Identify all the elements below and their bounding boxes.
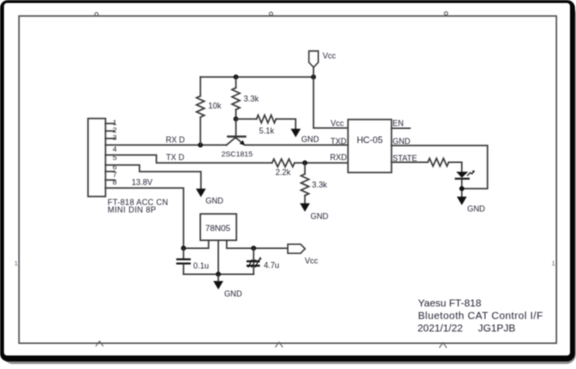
border mark bottom C — [440, 343, 447, 348]
label GND (pin 6) — [206, 197, 224, 206]
pin 1 stub — [106, 123, 115, 125]
svg-text:2021/1/22: 2021/1/22 — [418, 324, 464, 335]
svg-text:GND: GND — [393, 137, 411, 146]
resistor R2 3.3k — [232, 77, 240, 119]
label GND (LED) — [467, 204, 485, 213]
svg-text:2SC1815: 2SC1815 — [221, 150, 252, 159]
wire regulator ground stem — [217, 274, 219, 281]
svg-text:RX D: RX D — [166, 135, 185, 144]
label TXD pin U2 — [331, 137, 347, 146]
label GND (R3) — [301, 135, 319, 144]
svg-text:Bluetooth CAT Control I/F: Bluetooth CAT Control I/F — [418, 311, 543, 322]
LED D1 anode triangle — [456, 172, 468, 178]
wire pin 6 to ground — [106, 165, 201, 189]
border mark bottom A — [96, 341, 103, 346]
border mark right 1 — [552, 261, 556, 268]
pin 4 number — [113, 144, 117, 153]
pin 7 number — [113, 170, 117, 179]
ground symbol (R3) — [291, 129, 301, 138]
LED D1 emission arrow — [468, 171, 475, 176]
svg-text:1: 1 — [552, 261, 556, 268]
wire U1 output leg — [227, 240, 288, 248]
regulator U1 78N05 body — [200, 214, 236, 240]
label 2SC1815 — [221, 150, 252, 159]
resistor R1 10k — [197, 77, 205, 145]
wire LED cathode down — [461, 180, 463, 197]
pin 2 number — [113, 126, 117, 135]
pin 3 number — [113, 133, 117, 142]
module U2 HC-05 body — [348, 120, 392, 173]
pin EN stub U2 — [392, 127, 411, 129]
label 13.8V — [132, 178, 154, 187]
label 4.7u — [264, 261, 280, 270]
label RXD pin U2 — [330, 153, 347, 162]
label 3.3k (R2) — [244, 94, 260, 103]
label GND (R5) — [311, 212, 329, 221]
svg-text:GND: GND — [301, 135, 319, 144]
label HC-05 — [357, 135, 383, 145]
svg-text:10k: 10k — [208, 102, 222, 111]
wire 13.8V (pin 8 to regulator input) — [106, 188, 184, 248]
ground symbol (regulator) — [213, 281, 223, 290]
svg-text:GND: GND — [224, 289, 242, 298]
capacitor C2 4.7u top lead — [253, 248, 255, 260]
border mark bottom B — [276, 342, 283, 347]
svg-text:Vcc: Vcc — [305, 257, 318, 266]
pin 6 number — [113, 162, 117, 171]
svg-text:STATE: STATE — [393, 154, 418, 163]
junction R2 / R3 / Q1 base — [233, 117, 238, 122]
svg-text:5.1k: 5.1k — [259, 127, 275, 136]
svg-text:JG1PJB: JG1PJB — [478, 324, 516, 335]
capacitor C2 4.7u bottom lead — [253, 266, 255, 274]
wire TX D (pin 5, steps down) — [106, 155, 273, 163]
title line 3 — [418, 324, 516, 335]
capacitor C1 0.1u top lead — [183, 248, 185, 258]
border mark left 1 — [14, 261, 18, 268]
junction ground rail / U1 — [216, 272, 221, 277]
wire Q1 emitter to U2 TXD — [245, 144, 348, 146]
transistor Q1 base bar — [228, 136, 245, 138]
svg-text:2.2k: 2.2k — [276, 168, 292, 177]
svg-text:EN: EN — [393, 119, 404, 128]
transistor Q1 2SC1815 base stem — [235, 119, 237, 138]
svg-text:GND: GND — [467, 204, 485, 213]
transistor Q1 collector lead — [226, 137, 235, 145]
connector label line 2 — [108, 206, 157, 215]
junction LED / GND wire — [459, 186, 464, 191]
resistor R6 (STATE) — [428, 158, 462, 171]
svg-text:3: 3 — [113, 133, 117, 142]
pin 2 stub — [106, 130, 115, 132]
pin 8 stub — [106, 179, 115, 181]
wire U1 ground leg — [217, 240, 219, 274]
transistor Q1 emitter arrow — [240, 140, 246, 145]
transistor Q1 emitter lead — [236, 138, 244, 145]
border mark top A — [95, 13, 98, 16]
svg-text:TXD: TXD — [331, 137, 347, 146]
wire U2 GND pin to LED cathode — [392, 146, 488, 189]
svg-text:Vcc: Vcc — [331, 119, 344, 128]
junction input / C1 — [181, 246, 186, 251]
wire Vcc stem down to U2 Vcc pin — [314, 67, 349, 128]
label Vcc (top) — [323, 51, 336, 60]
label Vcc pin U2 — [331, 119, 344, 128]
junction RX D / R1 — [198, 143, 203, 148]
label 3.3k (R5) — [312, 180, 328, 189]
capacitor C2 polarity mark — [259, 257, 262, 260]
svg-text:3.3k: 3.3k — [244, 94, 260, 103]
pin 7 stub — [106, 171, 115, 173]
border mark top B — [269, 12, 272, 15]
junction R4 / R5 — [302, 160, 307, 165]
border mark top C — [444, 12, 447, 15]
svg-text:GND: GND — [206, 197, 224, 206]
connector label line 1 — [108, 198, 169, 207]
ground symbol (LED) — [457, 197, 467, 206]
junction rail / Vcc stem — [311, 75, 316, 80]
ground symbol (pin 6) — [196, 189, 206, 198]
svg-text:GND: GND — [311, 212, 329, 221]
resistor R4 2.2k — [272, 159, 348, 167]
label 2.2k — [276, 168, 292, 177]
wire ground rail — [184, 273, 254, 275]
label 78N05 — [205, 223, 230, 233]
svg-text:78N05: 78N05 — [205, 223, 230, 233]
svg-text:4.7u: 4.7u — [264, 261, 280, 270]
ground symbol (R5) — [300, 203, 310, 212]
capacitor C2 4.7u plates — [248, 260, 259, 267]
svg-text:Yaesu FT-818: Yaesu FT-818 — [418, 299, 482, 310]
resistor R3 5.1k — [236, 115, 296, 129]
power flag Vcc (output) — [288, 244, 305, 253]
svg-text:1: 1 — [14, 261, 18, 268]
wire U2 STATE pin to R6 — [392, 161, 428, 163]
svg-text:TX D: TX D — [166, 153, 184, 162]
wire Vcc top rail — [200, 76, 313, 78]
title line 1 — [418, 299, 482, 310]
label GND pin U2 — [393, 137, 411, 146]
wire RX D (pin 4 to Q1 collector) — [106, 144, 227, 146]
label GND (regulator) — [224, 289, 242, 298]
pin 3 stub — [106, 138, 115, 140]
power flag Vcc (top) — [309, 51, 318, 67]
capacitor C1 0.1u plates — [177, 259, 190, 263]
junction output / C2 — [251, 246, 256, 251]
resistor R5 3.3k — [301, 163, 309, 204]
label 5.1k — [259, 127, 275, 136]
svg-text:HC-05: HC-05 — [357, 135, 383, 145]
svg-text:RXD: RXD — [330, 153, 347, 162]
wire U1 input leg — [184, 240, 209, 248]
label RX D — [166, 135, 185, 144]
capacitor C1 0.1u bottom lead — [183, 264, 185, 274]
junction rail / R2 — [233, 75, 238, 80]
label TX D — [166, 153, 184, 162]
svg-text:MINI DIN 8P: MINI DIN 8P — [108, 206, 157, 215]
svg-text:8: 8 — [113, 178, 117, 187]
label 10k — [208, 102, 222, 111]
svg-text:13.8V: 13.8V — [132, 178, 154, 187]
pin 5 number — [113, 153, 117, 162]
label STATE pin U2 — [393, 154, 418, 163]
pin 1 number — [113, 118, 117, 127]
label EN pin U2 — [393, 119, 404, 128]
label Vcc (output) — [305, 257, 318, 266]
svg-text:Vcc: Vcc — [323, 51, 336, 60]
svg-text:3.3k: 3.3k — [312, 180, 328, 189]
pin 8 number — [113, 178, 117, 187]
LED D1 cathode bar — [456, 178, 469, 180]
connector J1 body (MINI DIN 8P) — [88, 119, 106, 197]
svg-text:0.1u: 0.1u — [193, 261, 209, 270]
label 0.1u — [193, 261, 209, 270]
title line 2 — [418, 311, 543, 322]
